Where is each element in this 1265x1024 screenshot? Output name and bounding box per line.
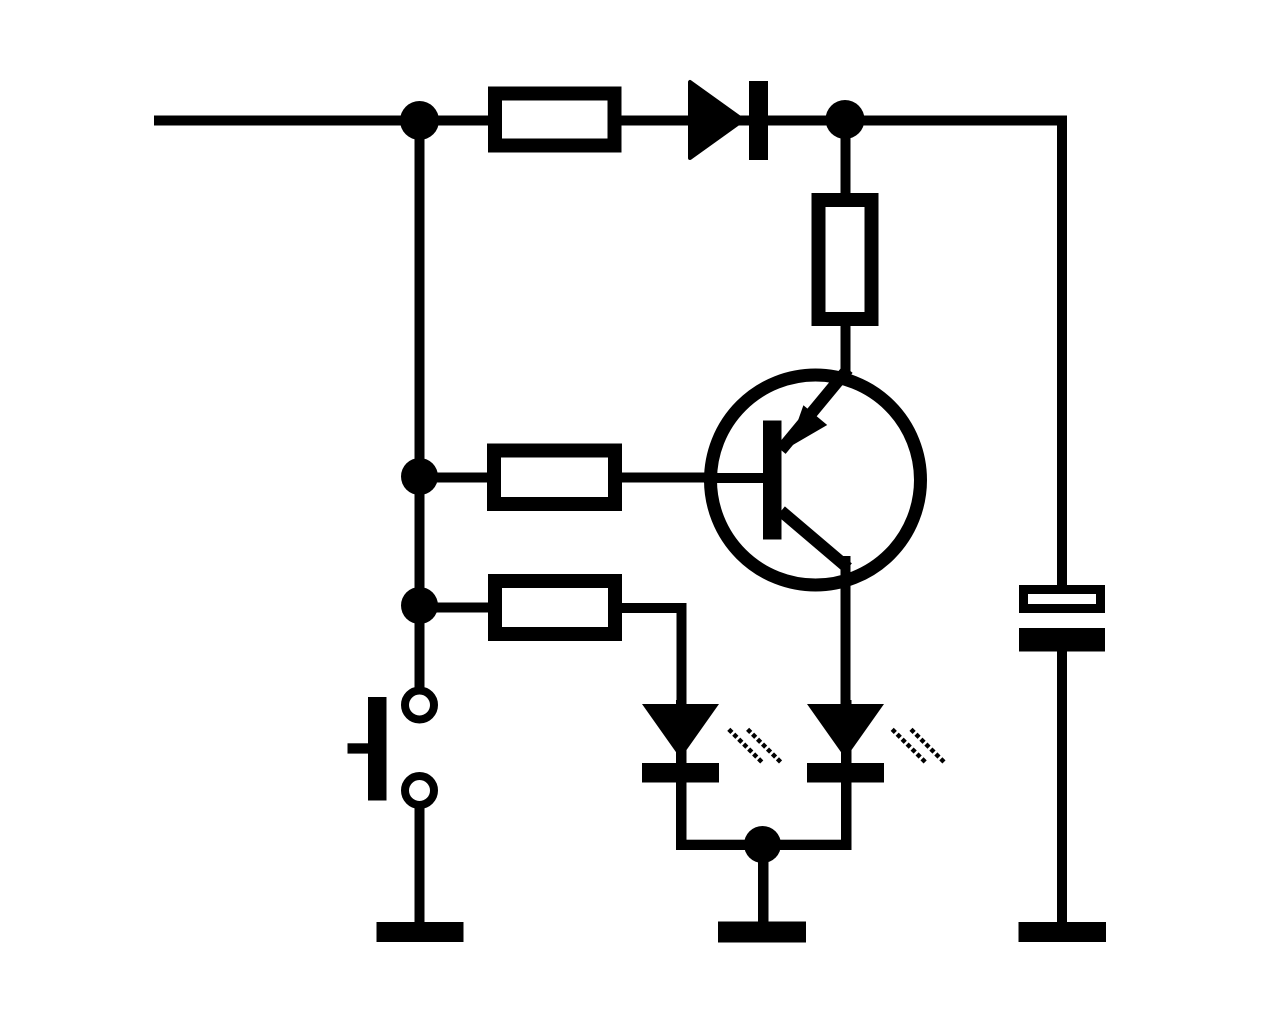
wire resistor R2 to transistor base bbox=[620, 473, 710, 483]
resistor R3 (LED resistor) bbox=[495, 581, 615, 634]
wire bottom junction to ground bbox=[758, 845, 769, 923]
wire node to resistor R2 bbox=[420, 473, 490, 483]
ground (under LEDs) bbox=[718, 922, 806, 943]
wire bottom horizontal joining LEDs bbox=[676, 840, 852, 850]
LED D2 (left LED) bbox=[642, 704, 782, 783]
wire right vertical upper (corner to capacitor top) bbox=[1057, 116, 1067, 589]
node A (top-left junction) bbox=[400, 101, 439, 140]
capacitor C1 (polarized) bbox=[1019, 590, 1105, 652]
pushbutton S1 bbox=[348, 691, 435, 806]
diode D1 (series diode, anode left) bbox=[690, 81, 768, 160]
transistor Q1 (PNP) bbox=[704, 369, 921, 705]
wire node to resistor R3 bbox=[420, 603, 490, 613]
wire top horizontal from input to top-right corner bbox=[154, 116, 1067, 126]
wire LED1 bottom down bbox=[676, 700, 687, 850]
resistor R2 (base resistor) bbox=[494, 451, 615, 505]
node D (junction at LED resistor) bbox=[401, 587, 438, 624]
ground (under switch) bbox=[377, 922, 464, 942]
wire LED2 bottom down bbox=[841, 700, 852, 850]
wire right vertical lower (capacitor bottom to ground) bbox=[1057, 651, 1067, 923]
node B (top-right junction above R4) bbox=[826, 100, 865, 139]
wire resistor R3 right then down to LED1 bbox=[620, 603, 687, 706]
wire transistor emitter down to LED2 bbox=[841, 556, 851, 705]
node E (bottom junction of LEDs) bbox=[744, 826, 781, 863]
ground (under capacitor) bbox=[1019, 922, 1107, 942]
resistor R1 (top horizontal) bbox=[495, 94, 615, 146]
node C (junction at base resistor) bbox=[401, 458, 438, 495]
wire switch bottom to ground bbox=[415, 806, 425, 923]
wire resistor R4 to transistor top bbox=[841, 324, 851, 378]
LED D3 (right LED) bbox=[807, 704, 945, 783]
resistor R4 (vertical collector resistor) bbox=[819, 200, 872, 319]
wire left vertical bus (top node down to switch) bbox=[415, 116, 425, 689]
wire node1 down to resistor R4 bbox=[841, 116, 851, 200]
